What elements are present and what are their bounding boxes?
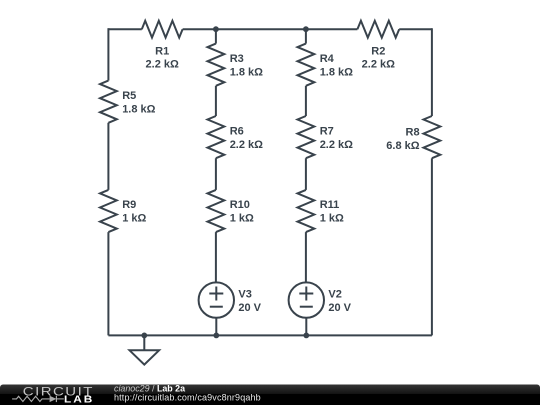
wire top-middle segment xyxy=(183,28,358,30)
resistor R6 xyxy=(208,116,225,158)
wire left branch middle xyxy=(107,123,109,190)
ground xyxy=(130,335,160,364)
svg-text:R6: R6 xyxy=(230,125,244,137)
wire branch-1 between R3 and R6 xyxy=(215,86,217,116)
CircuitLab logo resistor-diode glyph xyxy=(12,396,64,402)
node top junction at R4 branch xyxy=(303,26,309,32)
resistor R5 xyxy=(100,81,117,123)
svg-text:1 kΩ: 1 kΩ xyxy=(230,213,254,225)
svg-text:LAB: LAB xyxy=(64,394,94,405)
wire branch-2 between R4 and R7 xyxy=(305,86,307,116)
wire branch-1 between R10 and V3 xyxy=(215,232,217,282)
wire left branch lower xyxy=(107,232,109,335)
footer bar xyxy=(0,385,540,405)
resistor R3 xyxy=(208,44,225,86)
svg-text:R7: R7 xyxy=(320,125,334,137)
resistor R2 xyxy=(357,21,399,38)
voltage source V2 xyxy=(289,282,324,317)
wire bottom rail xyxy=(108,334,432,336)
resistor R11 xyxy=(298,190,315,232)
wire branch-2 between R11 and V2 xyxy=(305,232,307,282)
resistor R8 xyxy=(424,116,441,158)
resistor R1 xyxy=(142,21,183,38)
svg-text:R5: R5 xyxy=(122,90,136,102)
svg-text:R2: R2 xyxy=(371,45,385,57)
svg-text:2.2 kΩ: 2.2 kΩ xyxy=(362,59,395,71)
svg-text:1.8 kΩ: 1.8 kΩ xyxy=(320,66,353,78)
wire branch-1 between R6 and R10 xyxy=(215,158,217,190)
svg-text:R10: R10 xyxy=(230,199,250,211)
svg-text:R9: R9 xyxy=(122,199,136,211)
svg-text:R4: R4 xyxy=(320,53,335,65)
node ground junction xyxy=(141,333,147,339)
resistor R9 xyxy=(100,190,117,232)
svg-text:20 V: 20 V xyxy=(328,302,351,314)
svg-text:R8: R8 xyxy=(406,126,420,138)
svg-text:20 V: 20 V xyxy=(238,302,261,314)
wire branch-1 top lead xyxy=(215,29,217,43)
svg-text:1 kΩ: 1 kΩ xyxy=(122,213,146,225)
wire right branch lower xyxy=(431,158,433,335)
svg-text:V2: V2 xyxy=(328,288,341,300)
node bottom junction at V2 xyxy=(303,333,309,339)
svg-text:R3: R3 xyxy=(230,53,244,65)
svg-text:2.2 kΩ: 2.2 kΩ xyxy=(230,139,263,151)
svg-text:6.8 kΩ: 6.8 kΩ xyxy=(386,140,419,152)
svg-text:1 kΩ: 1 kΩ xyxy=(320,213,344,225)
voltage source V3 xyxy=(199,282,234,317)
resistor R7 xyxy=(298,116,315,158)
wire branch-2 between R7 and R11 xyxy=(305,158,307,190)
svg-text:V3: V3 xyxy=(238,288,251,300)
svg-text:R11: R11 xyxy=(320,199,340,211)
svg-text:http://circuitlab.com/ca9vc8nr: http://circuitlab.com/ca9vc8nr9qahb xyxy=(114,392,261,402)
wire branch-2 top lead xyxy=(305,29,307,43)
resistor R4 xyxy=(298,44,315,86)
node bottom junction at V3 xyxy=(213,333,219,339)
svg-text:1.8 kΩ: 1.8 kΩ xyxy=(230,66,263,78)
wire branch-1 V3 to bottom xyxy=(215,318,217,336)
node top junction at R3 branch xyxy=(213,26,219,32)
resistor R10 xyxy=(208,190,225,232)
svg-text:R1: R1 xyxy=(155,45,169,57)
svg-text:2.2 kΩ: 2.2 kΩ xyxy=(146,59,179,71)
wire top-left segment xyxy=(108,28,141,30)
wire top-right segment xyxy=(399,28,432,30)
wire left branch upper xyxy=(107,28,109,80)
wire branch-2 V2 to bottom xyxy=(305,318,307,336)
svg-text:2.2 kΩ: 2.2 kΩ xyxy=(320,139,353,151)
wire right branch upper xyxy=(431,28,433,116)
svg-text:1.8 kΩ: 1.8 kΩ xyxy=(122,103,155,115)
